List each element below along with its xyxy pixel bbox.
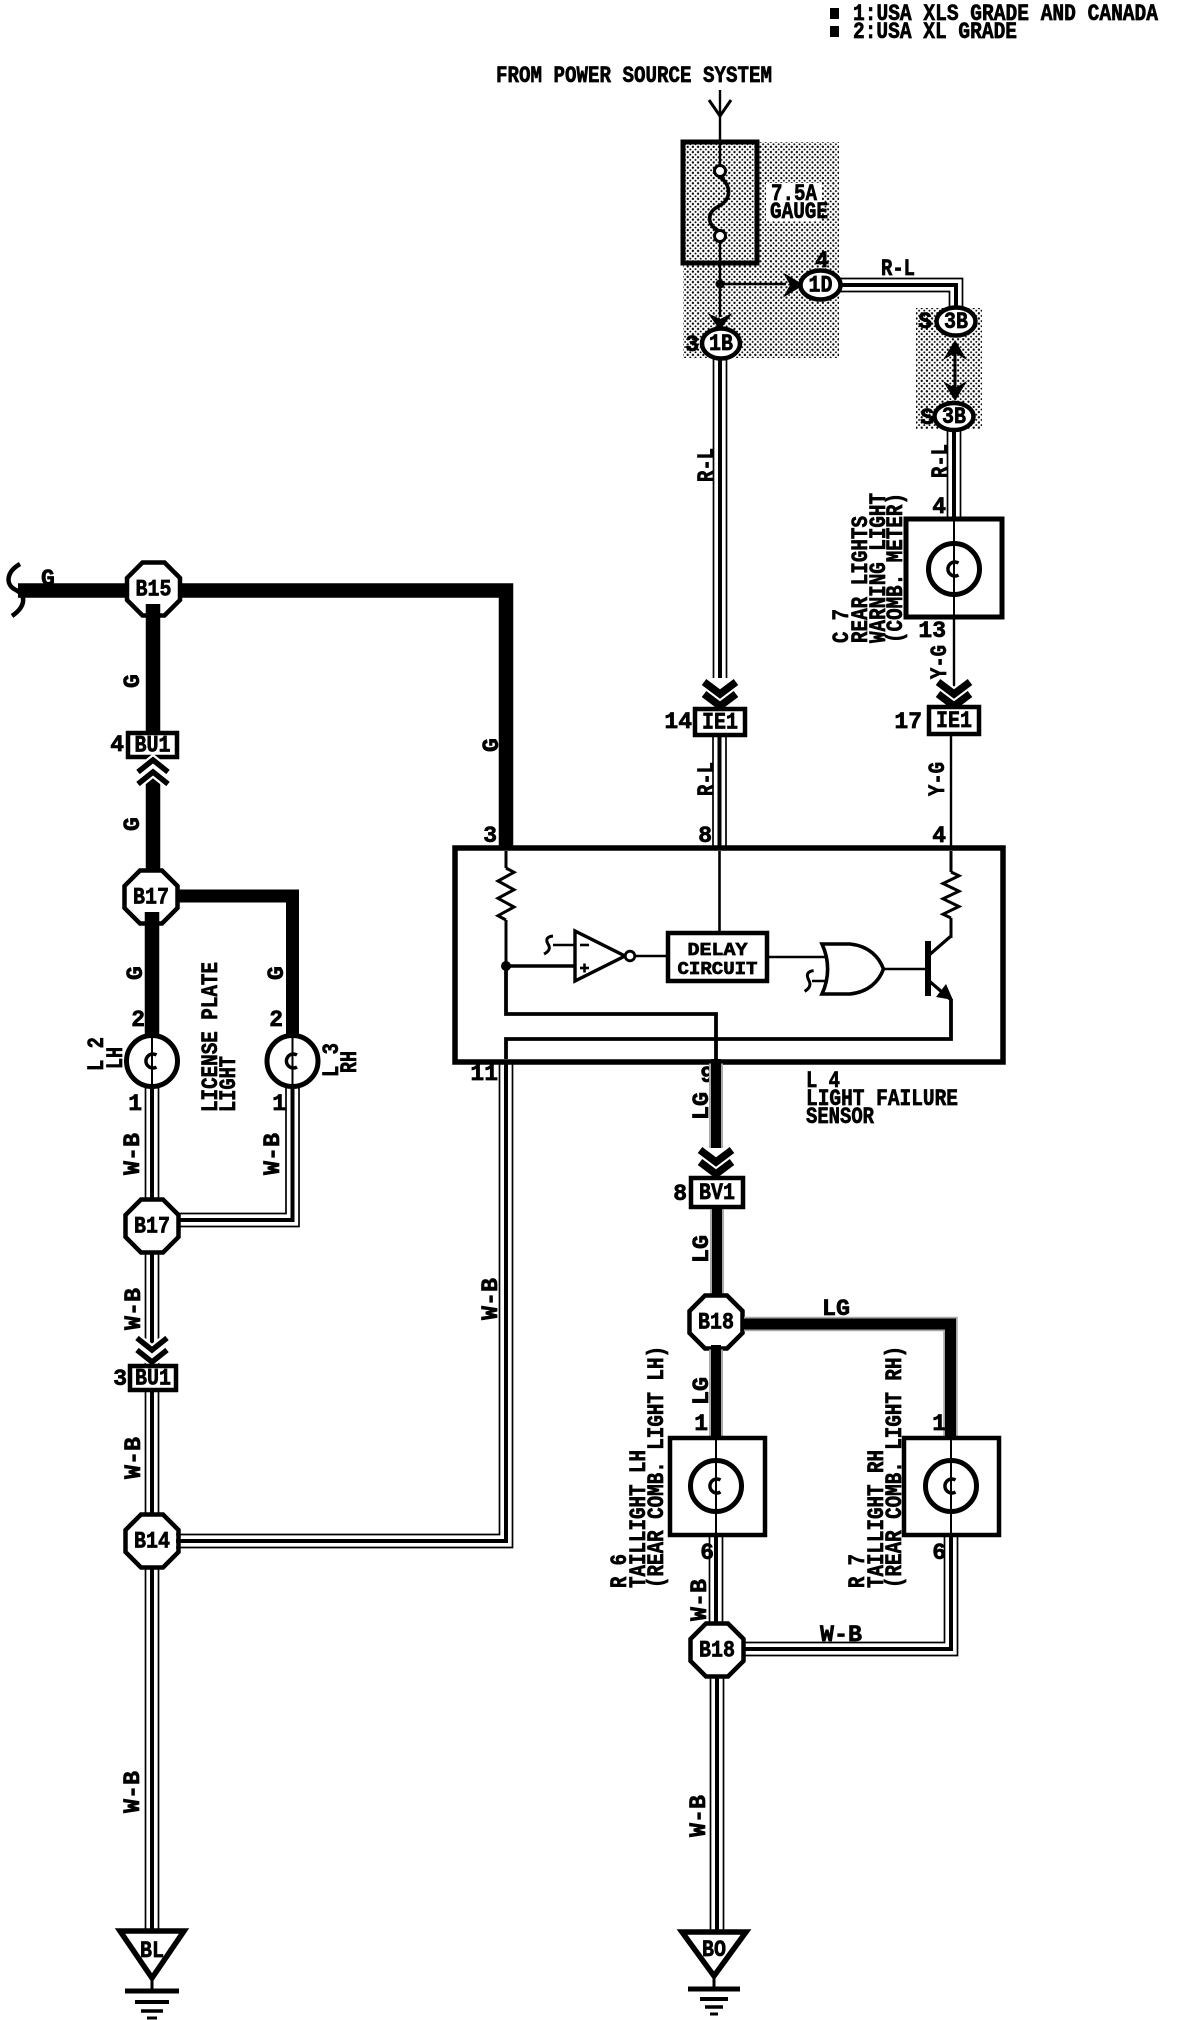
svg-text:B17: B17 — [134, 1214, 170, 1240]
svg-text:3B: 3B — [944, 309, 968, 335]
wire R-L from 1D to 3B — [840, 279, 963, 310]
svg-text:G: G — [120, 817, 146, 831]
svg-text:W-B: W-B — [478, 1278, 504, 1320]
wire from power source — [719, 90, 721, 146]
wire W-B R7 to B18 — [744, 1535, 945, 1643]
svg-text:3B: 3B — [942, 404, 966, 430]
component R6 taillight LH — [670, 1438, 765, 1535]
connector 1B — [719, 284, 721, 317]
svg-text:6: 6 — [700, 1540, 714, 1566]
node junction below fuse — [716, 280, 725, 289]
svg-text:2: 2 — [269, 1007, 283, 1033]
note USA grades — [830, 8, 839, 19]
svg-text:1: 1 — [932, 1411, 946, 1437]
svg-text:B17: B17 — [133, 885, 169, 911]
wire W-B BU1 to B14 — [145, 1390, 147, 1518]
wire R-L from 1B to IE1 pin 14 — [713, 359, 715, 678]
svg-text:4: 4 — [110, 732, 124, 758]
svg-text:LG: LG — [689, 1377, 715, 1405]
wire G B17 to L2 license lamp — [145, 912, 160, 1040]
svg-text:3: 3 — [113, 1366, 127, 1392]
svg-text:Y-G: Y-G — [925, 762, 951, 796]
svg-text:G: G — [479, 738, 505, 752]
delay circuit box — [668, 933, 767, 981]
wire W-B B14 to L4 pin 11 — [176, 1062, 500, 1535]
svg-text:IE1: IE1 — [936, 708, 972, 734]
shaded area around 3B connectors — [916, 308, 982, 429]
svg-text:4: 4 — [932, 494, 946, 520]
OR gate — [822, 944, 884, 994]
svg-text:BU1: BU1 — [135, 1366, 171, 1392]
wire LG B18 to R7 taillight — [744, 1324, 951, 1441]
svg-text:17: 17 — [894, 709, 922, 735]
svg-text:R-L: R-L — [928, 444, 954, 478]
svg-text:8: 8 — [698, 823, 712, 849]
svg-text:B18: B18 — [698, 1310, 734, 1336]
svg-text:11: 11 — [470, 1061, 498, 1087]
svg-text:1: 1 — [272, 1091, 286, 1117]
svg-text:Y-G: Y-G — [927, 645, 953, 679]
svg-text:2: 2 — [131, 1007, 145, 1033]
wire W-B L3 to B17 — [176, 1087, 286, 1214]
svg-text:14: 14 — [664, 709, 692, 735]
pin3 stub — [505, 851, 508, 868]
svg-text:W-B: W-B — [687, 1579, 713, 1621]
OR gate input stub with continuation squiggle — [812, 980, 831, 983]
svg-text:3: 3 — [685, 332, 699, 358]
wire LG from L4 pin 9 to BV1 — [709, 1064, 723, 1149]
svg-text:13: 13 — [918, 618, 946, 644]
arrows between 3B connectors — [943, 340, 967, 360]
svg-text:W-B: W-B — [260, 1133, 286, 1175]
svg-text:1D: 1D — [809, 273, 833, 299]
svg-text:BL: BL — [140, 1938, 164, 1964]
wire R-L from 3B to C7 — [947, 430, 949, 519]
svg-text:LG: LG — [689, 1092, 715, 1120]
wire G B15 to BU1 — [146, 604, 161, 733]
output rail junction to pin 9 — [506, 966, 716, 1059]
wire pin 8 to delay circuit — [718, 851, 721, 933]
svg-text:BO: BO — [702, 1937, 726, 1963]
ground BL — [120, 1931, 184, 1978]
svg-text:R-L: R-L — [881, 256, 915, 282]
shaded area around fuse — [683, 142, 839, 358]
fuse 7.5A GAUGE — [683, 142, 757, 263]
svg-text:G: G — [120, 674, 146, 688]
wire W-B L2 to B17 — [145, 1087, 147, 1203]
wire Y-G from C7 to IE1 — [953, 617, 955, 700]
wire delay to OR gate — [767, 956, 833, 959]
svg-text:W-B: W-B — [120, 1133, 146, 1175]
connector B14 — [126, 1515, 179, 1568]
svg-text:LIGHT: LIGHT — [216, 1056, 242, 1112]
wire G main feed from B15 to L4 pin 3 — [18, 591, 506, 852]
component C7 rear lights warning light (comb. meter) — [906, 519, 1002, 617]
svg-text:R-L: R-L — [694, 448, 720, 482]
svg-text:B14: B14 — [134, 1529, 170, 1555]
wire LG B18 to R6 taillight — [709, 1350, 723, 1442]
svg-text:GAUGE: GAUGE — [770, 199, 828, 225]
svg-text:W-B: W-B — [120, 1771, 146, 1813]
connector B18 lower — [691, 1624, 744, 1677]
svg-text:W-B: W-B — [121, 1288, 147, 1330]
svg-text:S: S — [918, 309, 932, 335]
transistor Q1 — [925, 941, 931, 996]
svg-text:8: 8 — [673, 1181, 687, 1207]
svg-text:2:USA XL GRADE: 2:USA XL GRADE — [853, 19, 1017, 45]
comparator minus input stub with continuation squiggle — [553, 944, 575, 947]
connector B15 — [127, 563, 180, 616]
svg-text:G: G — [123, 966, 149, 980]
svg-text:1: 1 — [128, 1091, 142, 1117]
connector B17 lower — [126, 1200, 179, 1253]
svg-text:G: G — [264, 966, 290, 980]
wire comparator out to delay circuit — [635, 955, 668, 958]
svg-text:DELAY: DELAY — [688, 941, 748, 961]
svg-text:SENSOR: SENSOR — [806, 1104, 874, 1130]
wire OR gate to transistor base — [883, 968, 926, 971]
wire Y-G from IE1 to L4 pin 4 — [950, 734, 952, 848]
svg-text:(REAR COMB. LIGHT RH): (REAR COMB. LIGHT RH) — [882, 1346, 908, 1588]
svg-text:FROM POWER SOURCE SYSTEM: FROM POWER SOURCE SYSTEM — [496, 63, 772, 89]
node junction left — [501, 961, 511, 971]
svg-text:CIRCUIT: CIRCUIT — [678, 960, 758, 980]
wire W-B R6 to B18 — [709, 1535, 711, 1627]
wire W-B B14 to ground BL — [145, 1566, 147, 1934]
svg-text:BV1: BV1 — [699, 1180, 735, 1206]
svg-text:W-B: W-B — [686, 1795, 712, 1837]
svg-text:W-B: W-B — [820, 1622, 862, 1648]
svg-text:G: G — [41, 566, 55, 592]
connector B17 — [125, 871, 178, 924]
svg-text:R-L: R-L — [694, 762, 720, 796]
lamp L3 license plate light RH — [267, 1036, 318, 1087]
ground BO — [682, 1932, 746, 1976]
svg-text:(REAR COMB. LIGHT LH): (REAR COMB. LIGHT LH) — [644, 1346, 670, 1588]
wire junction to comparator — [506, 964, 575, 967]
collector resistor to pin 4 — [950, 851, 953, 872]
comparator U1 — [575, 931, 625, 981]
svg-text:4: 4 — [932, 823, 946, 849]
svg-text:IE1: IE1 — [702, 710, 738, 736]
emitter wire to pin 11 rail — [506, 999, 951, 1059]
wire W-B B18 to ground BO — [710, 1675, 712, 1935]
svg-text:RH: RH — [337, 1051, 363, 1073]
svg-text:B15: B15 — [136, 577, 172, 603]
component R7 taillight RH — [904, 1438, 999, 1535]
wire LG BV1 to B18 — [710, 1210, 724, 1301]
svg-text:W-B: W-B — [121, 1437, 147, 1479]
wire G BU1 to B17 — [146, 757, 161, 880]
svg-text:LG: LG — [822, 1296, 850, 1322]
svg-text:(COMB. METER): (COMB. METER) — [883, 493, 909, 643]
svg-text:1: 1 — [694, 1411, 708, 1437]
wire R-L from IE1 to L4 pin 8 — [712, 735, 714, 853]
svg-text:3: 3 — [483, 823, 497, 849]
lamp L2 license plate light LH — [127, 1036, 178, 1087]
svg-text:1B: 1B — [709, 331, 733, 357]
svg-text:S: S — [920, 405, 934, 431]
wire junction to connector 1D — [720, 283, 786, 285]
svg-text:LH: LH — [103, 1047, 129, 1069]
resistor left sense — [498, 868, 514, 920]
wire W-B B17 to BU1 pin 3 — [145, 1251, 147, 1366]
connector B18 — [690, 1296, 743, 1349]
wire G B17 to L3 license lamp — [176, 896, 293, 1040]
continuation mark left edge — [9, 564, 24, 616]
svg-text:LG: LG — [689, 1235, 715, 1263]
svg-text:B18: B18 — [699, 1638, 735, 1664]
component L4 light failure sensor — [455, 848, 1003, 1062]
